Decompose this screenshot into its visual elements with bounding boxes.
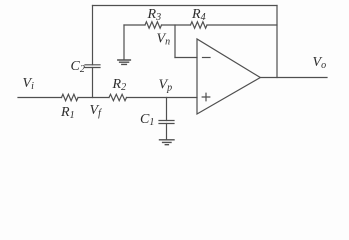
svg-text:Vn: Vn [157, 32, 171, 48]
ground (bottom, below C1) [160, 140, 175, 145]
wire R4 to feedback vertical [207, 24, 277, 26]
wire input Vi to R1 [18, 97, 62, 99]
capacitor C1 [159, 121, 174, 124]
op-amp minus pin mark [203, 57, 211, 59]
svg-text:R4: R4 [191, 7, 206, 23]
wire feedback vertical down to output node [276, 6, 278, 78]
resistor R3 [145, 22, 162, 28]
op-amp plus pin mark [202, 93, 210, 101]
wire C2 top plate up to top feedback rail [92, 6, 94, 65]
wire R1 to R2 (node Vf at x=92.5) [78, 97, 109, 99]
wire top feedback rail [93, 5, 278, 7]
wire C1 drop from node Vp [166, 98, 168, 121]
wire output Vo [260, 77, 327, 79]
svg-text:Vp: Vp [159, 78, 173, 94]
svg-text:R1: R1 [60, 105, 75, 121]
wire vertical Vf node up to capacitor C2 bottom plate [92, 68, 94, 98]
resistor R1 [62, 94, 79, 100]
op-amp U1 [197, 39, 260, 114]
svg-text:Vo: Vo [313, 55, 327, 71]
svg-text:Vf: Vf [90, 103, 103, 119]
wire R2 to op-amp + input (node Vp at x=166.5) [127, 97, 198, 99]
wire Vn junction down [174, 25, 176, 58]
wire C1 bottom plate to ground [166, 124, 168, 140]
wire Vn to op-amp - input [175, 57, 197, 59]
resistor R4 [191, 22, 208, 28]
svg-text:R2: R2 [112, 77, 127, 93]
svg-text:Vi: Vi [23, 76, 35, 92]
ground (top, below R3 left lead) [118, 60, 131, 64]
wire R3 line left lead [124, 24, 145, 26]
capacitor C2 [85, 65, 100, 68]
wire R3-R4 junction (node Vn) [162, 24, 191, 26]
wire ground drop from R3 left end [123, 25, 125, 60]
svg-text:R3: R3 [147, 7, 162, 23]
svg-text:C2: C2 [71, 59, 85, 75]
svg-text:C1: C1 [140, 112, 154, 128]
resistor R2 [109, 94, 127, 100]
